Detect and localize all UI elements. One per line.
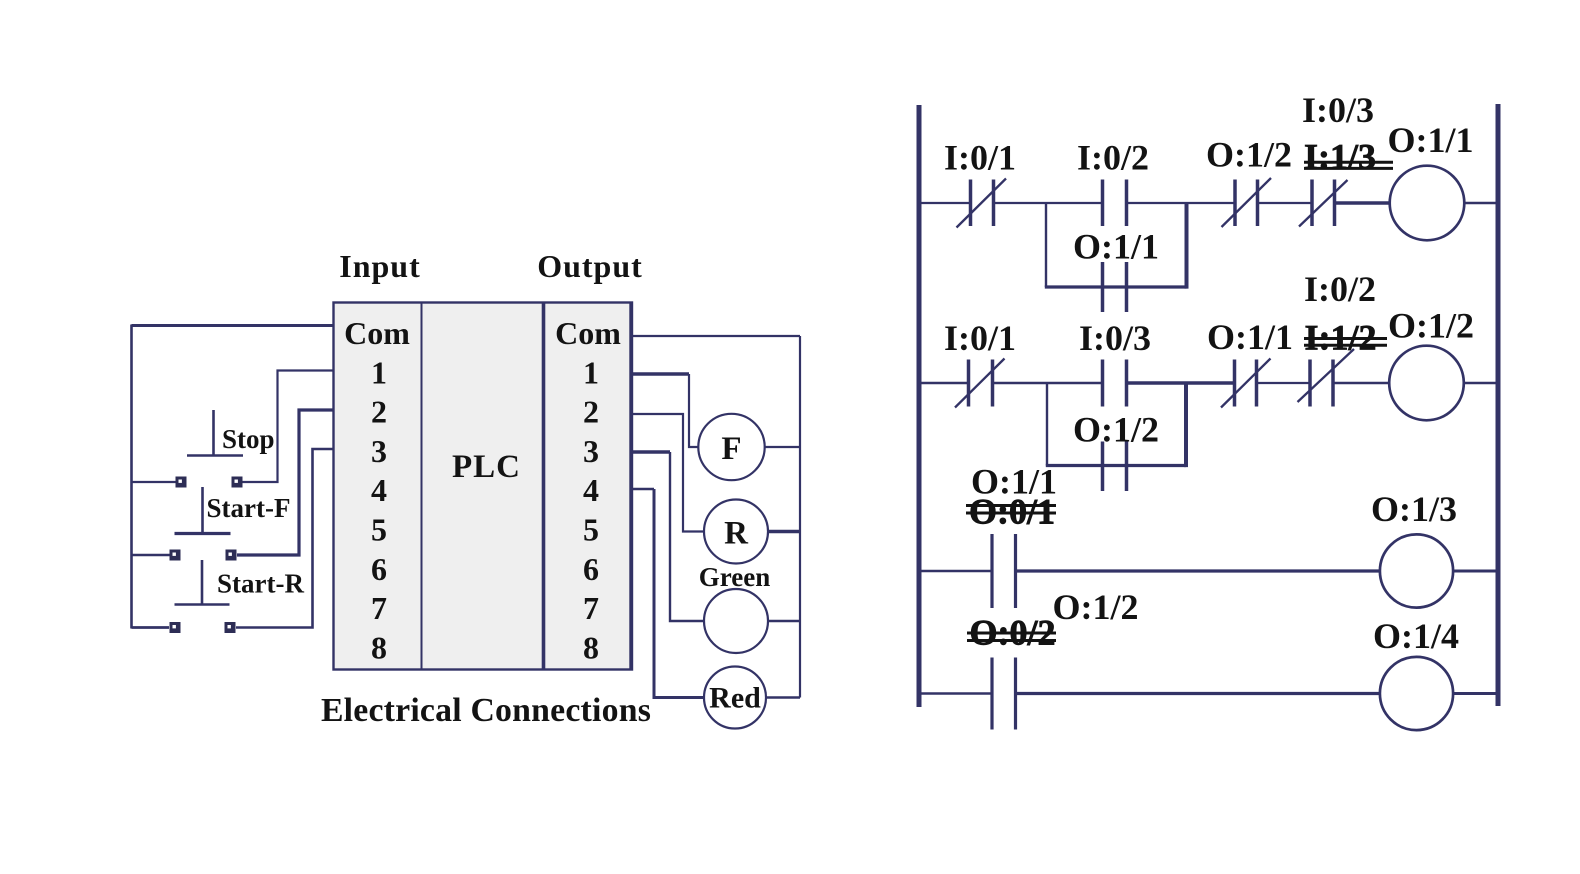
svg-text:I:0/1: I:0/1 bbox=[944, 138, 1016, 178]
rung 1 wire after I:0/2 bbox=[1127, 202, 1236, 204]
svg-text:Stop: Stop bbox=[222, 424, 275, 454]
svg-text:8: 8 bbox=[371, 629, 387, 665]
svg-text:1: 1 bbox=[583, 354, 599, 390]
svg-text:O:1/4: O:1/4 bbox=[1373, 616, 1459, 656]
svg-text:O:1/2: O:1/2 bbox=[1206, 135, 1292, 175]
branch rung 2 right vertical bbox=[1184, 383, 1188, 467]
svg-text:3: 3 bbox=[371, 433, 387, 469]
wire right vertical bus bbox=[799, 336, 801, 698]
contact I:0/2 NO rung 1 bbox=[1103, 180, 1127, 227]
contact O:1/1 NO rung 3 bbox=[992, 534, 1016, 608]
pushbutton Stop bar bbox=[187, 454, 243, 457]
branch rung 1 right vertical bbox=[1185, 203, 1189, 289]
branch rung 2 bottom wire bbox=[1046, 464, 1186, 467]
svg-text:Com: Com bbox=[555, 315, 621, 351]
svg-text:I:0/2: I:0/2 bbox=[1304, 269, 1376, 309]
pushbutton Start-F right terminal bbox=[226, 550, 237, 561]
svg-text:3: 3 bbox=[583, 433, 599, 469]
contact I:1/2 NC rung 2 bbox=[1298, 349, 1355, 407]
rung 1 wire left bbox=[921, 202, 970, 204]
pushbutton Start-R left terminal bbox=[170, 622, 181, 633]
svg-text:Input: Input bbox=[339, 248, 421, 284]
svg-text:7: 7 bbox=[371, 590, 387, 626]
right power rail bbox=[1496, 104, 1501, 706]
wire left vertical bus bbox=[130, 325, 133, 629]
svg-text:I:0/3: I:0/3 bbox=[1079, 318, 1151, 358]
wire Start-R to input 3 bbox=[236, 449, 334, 628]
branch rung 1 bottom wire bbox=[1045, 285, 1187, 288]
svg-text:O:1/3: O:1/3 bbox=[1371, 489, 1457, 529]
wire output Com to right bus bbox=[632, 335, 800, 337]
wire lamp R to bus bbox=[768, 530, 800, 533]
contact I:1/3 NC rung 1 bbox=[1299, 180, 1348, 227]
pushbutton Start-R actuator stem bbox=[201, 560, 204, 604]
pushbutton Stop actuator stem bbox=[212, 410, 215, 455]
contact I:0/3 NO rung 2 bbox=[1103, 360, 1127, 407]
wire stub to Start-F left terminal bbox=[132, 554, 171, 556]
contact O:1/2 NO branch rung 2 bbox=[1103, 442, 1127, 492]
wire down to lamp Green bbox=[670, 452, 704, 621]
wire lamp F to bus bbox=[765, 446, 800, 448]
svg-text:F: F bbox=[721, 431, 741, 467]
contact I:0/1 NC rung 1 bbox=[957, 179, 1007, 228]
rung 1 wire after O:1/2 bbox=[1258, 202, 1313, 204]
svg-text:Red: Red bbox=[709, 682, 761, 715]
svg-text:6: 6 bbox=[583, 551, 599, 587]
contact O:1/1 NO branch rung 1 bbox=[1103, 262, 1127, 312]
svg-text:I:0/2: I:0/2 bbox=[1077, 138, 1149, 178]
branch rung 2 left vertical bbox=[1046, 383, 1048, 466]
svg-text:Green: Green bbox=[699, 562, 770, 592]
pushbutton Stop right terminal bbox=[232, 477, 243, 488]
wire Stop to input 1 bbox=[242, 371, 334, 483]
wire output 4 to lamp Red bbox=[632, 488, 654, 491]
rung 4 wire to coil bbox=[1017, 692, 1381, 695]
PLC box body bbox=[334, 303, 633, 670]
label I:1/3 struck rung 1 bbox=[1304, 137, 1393, 177]
rung 1 wire to coil bbox=[1335, 201, 1391, 205]
svg-text:1: 1 bbox=[371, 354, 387, 390]
label O:0/1 struck rung 3 bbox=[966, 492, 1056, 532]
svg-text:O:1/2: O:1/2 bbox=[1053, 587, 1139, 627]
pushbutton Start-F bar bbox=[175, 532, 231, 535]
wire stub to Start-R left terminal bbox=[132, 626, 170, 629]
rung 2 wire to coil bbox=[1333, 382, 1390, 384]
rung 2 wire middle bbox=[993, 382, 1103, 384]
svg-text:4: 4 bbox=[583, 472, 599, 508]
rung 3 wire to coil bbox=[1017, 569, 1381, 572]
svg-text:4: 4 bbox=[371, 472, 387, 508]
svg-text:5: 5 bbox=[583, 512, 599, 548]
wire output 2 to lamp R bbox=[632, 414, 704, 532]
svg-text:5: 5 bbox=[371, 512, 387, 548]
svg-text:Start-R: Start-R bbox=[217, 569, 304, 599]
rung 4 wire coil to rail bbox=[1453, 692, 1496, 695]
svg-text:8: 8 bbox=[583, 629, 599, 665]
svg-text:Electrical Connections: Electrical Connections bbox=[321, 692, 651, 729]
wire down to lamp F bbox=[689, 374, 699, 447]
rung 2 wire left bbox=[921, 382, 969, 384]
pushbutton Stop left terminal bbox=[176, 477, 187, 488]
svg-text:7: 7 bbox=[583, 590, 599, 626]
lamp Red circle bbox=[704, 667, 766, 729]
pushbutton Start-R bar bbox=[175, 603, 230, 606]
coil O:1/3 rung 3 bbox=[1380, 534, 1453, 607]
label I:1/2 struck rung 2 bbox=[1304, 317, 1387, 357]
pushbutton Start-F left terminal bbox=[170, 550, 181, 561]
svg-text:O:1/1: O:1/1 bbox=[1073, 227, 1159, 267]
svg-text:O:1/1: O:1/1 bbox=[1388, 120, 1474, 160]
coil O:1/4 rung 4 bbox=[1380, 657, 1453, 730]
wire output 1 to lamp F bbox=[632, 372, 689, 375]
svg-text:I:1/3: I:1/3 bbox=[1304, 137, 1376, 177]
coil O:1/2 rung 2 bbox=[1389, 346, 1464, 421]
svg-text:O:1/1: O:1/1 bbox=[1207, 317, 1293, 357]
svg-text:2: 2 bbox=[583, 394, 599, 430]
rung 4 wire left bbox=[921, 692, 993, 695]
rung 2 wire after O:1/1 bbox=[1257, 382, 1311, 384]
branch rung 1 left vertical bbox=[1045, 203, 1047, 287]
contact O:1/2 NC rung 1 bbox=[1222, 178, 1272, 227]
svg-text:PLC: PLC bbox=[452, 449, 521, 485]
pushbutton Start-F actuator stem bbox=[201, 487, 204, 533]
wire Start-F to input 2 bbox=[237, 410, 334, 555]
contact O:1/1 NC rung 2 bbox=[1221, 359, 1271, 408]
svg-text:I:0/1: I:0/1 bbox=[944, 318, 1016, 358]
svg-text:Com: Com bbox=[344, 315, 410, 351]
svg-text:I:0/3: I:0/3 bbox=[1302, 90, 1374, 130]
PLC output column divider bbox=[542, 303, 546, 669]
left power rail bbox=[917, 105, 922, 707]
contact O:1/2 NO rung 4 bbox=[992, 658, 1016, 730]
rung 3 wire left bbox=[921, 570, 993, 573]
PLC box right edge bbox=[629, 303, 632, 669]
svg-text:6: 6 bbox=[371, 551, 387, 587]
lamp Green circle bbox=[704, 589, 768, 653]
PLC input column divider bbox=[421, 303, 423, 669]
svg-text:2: 2 bbox=[371, 394, 387, 430]
pushbutton Start-R right terminal bbox=[225, 622, 236, 633]
label O:0/2 struck rung 4 bbox=[967, 612, 1056, 652]
svg-text:O:1/2: O:1/2 bbox=[1073, 410, 1159, 450]
lamp R circle bbox=[704, 500, 768, 564]
coil O:1/1 rung 1 bbox=[1390, 166, 1465, 241]
lamp F circle bbox=[698, 414, 764, 480]
contact I:0/1 NC rung 2 bbox=[955, 359, 1005, 408]
wire lamp Red to bus bbox=[766, 696, 800, 698]
rung 1 wire coil to rail bbox=[1464, 202, 1496, 205]
rung 2 wire coil to rail bbox=[1464, 382, 1496, 384]
wire down to lamp Red bbox=[654, 489, 704, 698]
svg-text:Start-F: Start-F bbox=[207, 493, 291, 523]
wire input Com to left bus bbox=[132, 324, 335, 327]
svg-text:O:1/2: O:1/2 bbox=[1388, 306, 1474, 346]
wire lamp Green to bus bbox=[768, 620, 800, 622]
rung 1 wire middle bbox=[994, 202, 1103, 204]
rung 2 wire after I:0/3 bbox=[1127, 381, 1235, 384]
wire stub to Stop left terminal bbox=[132, 481, 177, 483]
svg-text:Output: Output bbox=[537, 248, 643, 284]
svg-text:R: R bbox=[724, 516, 749, 552]
rung 3 wire coil to rail bbox=[1453, 570, 1496, 573]
wire output 3 to lamp Green bbox=[632, 450, 670, 453]
